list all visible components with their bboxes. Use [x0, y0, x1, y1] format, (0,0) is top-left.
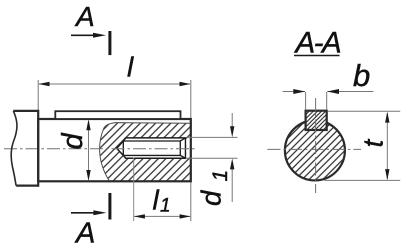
- keyway slot outer contour with vee runout: [117, 138, 186, 158]
- local section cut region (hatched): [100, 123, 191, 182]
- key protruding on top of shaft: [55, 111, 180, 119]
- extension line t top: [328, 110, 400, 112]
- arrow l1 right: [180, 214, 191, 218]
- dimension line b right tail: [327, 91, 373, 93]
- section plane mark A upper tick: [108, 31, 111, 55]
- extension line l left: [37, 80, 39, 110]
- arrow t top: [385, 112, 389, 123]
- extension line b right: [326, 92, 328, 110]
- svg-text:d: d: [196, 189, 227, 206]
- svg-text:A: A: [74, 1, 95, 32]
- svg-text:d: d: [57, 133, 89, 150]
- extension line t bottom: [325, 179, 401, 181]
- svg-text:1: 1: [160, 196, 171, 217]
- arrow l1 left: [134, 214, 145, 218]
- arrow b right: [327, 89, 339, 94]
- section view direction arrow upper: [71, 34, 97, 36]
- vertical centerline of section: [315, 98, 317, 193]
- section plane mark A lower tick: [108, 193, 111, 220]
- shaft cross-section circle (hatched): [285, 120, 345, 180]
- svg-text:A: A: [74, 218, 95, 249]
- shaft axis centerline: [4, 148, 197, 150]
- arrow d1 up: [230, 158, 234, 169]
- svg-text:b: b: [353, 58, 370, 93]
- arrow d top: [86, 119, 90, 130]
- white zone between slot end and shaft end face: [186, 139, 190, 158]
- dimension line l1: [134, 215, 190, 217]
- svg-text:l: l: [127, 52, 134, 83]
- arrow d bottom: [86, 170, 90, 181]
- svg-text:1: 1: [209, 170, 232, 182]
- extension line b left: [305, 92, 307, 110]
- dimension line d1 lower tail: [231, 169, 233, 202]
- svg-text:l: l: [153, 185, 160, 216]
- shaft shoulder stub with break line: [11, 110, 38, 187]
- extension line l1 right: [190, 182, 192, 221]
- extension line l right: [190, 80, 192, 118]
- arrow l right: [180, 82, 191, 86]
- dimension line d1 upper tail: [231, 113, 233, 127]
- extension line l1 left: [133, 158, 135, 222]
- section view direction arrow lower: [71, 212, 97, 214]
- title underline: [294, 55, 340, 57]
- extension line d1 bottom: [186, 157, 238, 159]
- dimension line b left tail: [283, 91, 306, 93]
- local section freehand boundary: [100, 123, 191, 182]
- keyway slot bottom (inner contour with end chamfers): [123, 138, 185, 158]
- key cross-section in keyway (hatched): [306, 111, 327, 130]
- dimension line l: [39, 83, 190, 85]
- dimension line d: [88, 121, 90, 179]
- horizontal centerline of section: [267, 148, 361, 150]
- arrow t bottom: [385, 169, 389, 180]
- extension line d1 top: [186, 136, 238, 138]
- arrow l left: [39, 82, 50, 86]
- arrow b left: [293, 89, 305, 94]
- main shaft outline: [38, 119, 191, 181]
- arrow d1 down: [230, 126, 234, 137]
- svg-text:A-A: A-A: [294, 27, 342, 60]
- dimension line t: [386, 113, 388, 179]
